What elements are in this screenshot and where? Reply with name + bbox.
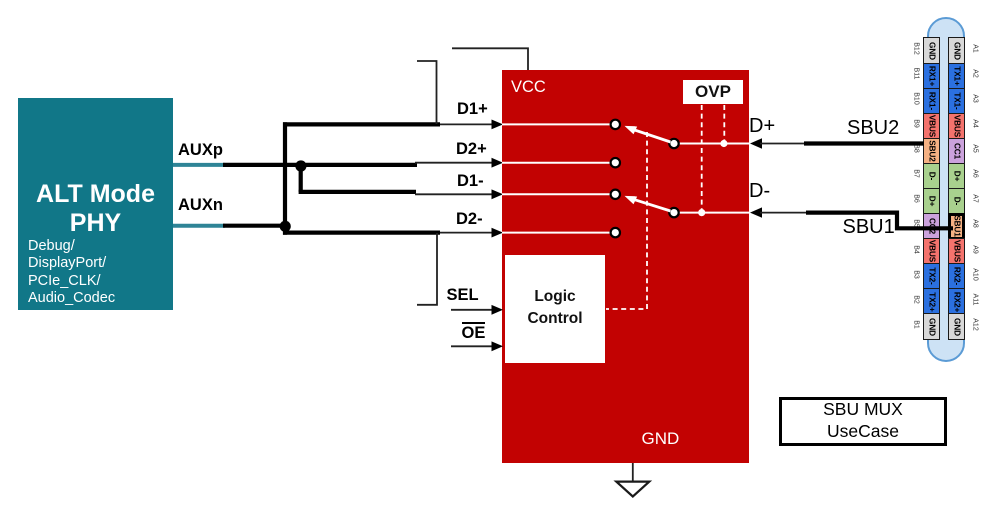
pin number B9 (913, 117, 920, 131)
wire D1- thin into mux (415, 193, 493, 195)
connector pin A10 RX2- (948, 263, 965, 290)
pin number B7 (913, 167, 920, 181)
connector pin B10 RX1- (923, 88, 940, 115)
dashed OVP sense line to D+ (723, 105, 725, 141)
switch throw node D2- (611, 228, 620, 237)
pin number A1 (972, 41, 979, 55)
connector pin A11 RX2+ (948, 288, 965, 315)
connector pin A6 D+ (948, 163, 965, 190)
connector pin A9 VBUS (948, 238, 965, 265)
pin number A8 (972, 217, 979, 231)
mux internal line D+ common (678, 143, 749, 145)
dashed control line from switch to Logic Control (606, 132, 647, 309)
pin number B4 (913, 242, 920, 256)
wire AUXp branch vertical (299, 165, 303, 192)
pin number A4 (972, 117, 979, 131)
pin number A6 (972, 167, 979, 181)
wire D1- feed (299, 190, 416, 194)
pin label SEL (447, 286, 479, 305)
connector pin B11 RX1+ (923, 63, 940, 90)
wire D2+ thin into mux (415, 162, 493, 164)
node label AUXp (178, 141, 223, 160)
pin label D- (749, 180, 770, 203)
pin number A9 (972, 242, 979, 256)
label ALT Mode PHY title (18, 180, 173, 238)
connector pin B7 D- (923, 163, 940, 190)
pin label D2+ (456, 140, 487, 159)
block OVP (683, 80, 743, 104)
pin label D+ (749, 115, 775, 138)
wire vertical bus AUXn to D1+/D2- (283, 122, 287, 234)
switch throw node D2+ (611, 158, 620, 167)
junction dot OVP on D- (698, 209, 705, 216)
pin number A10 (972, 267, 979, 281)
mux internal line D1- (502, 193, 611, 195)
pin number A12 (972, 317, 979, 331)
junction dot AUXp branch (295, 160, 306, 171)
wire D1+ thin into mux (440, 123, 493, 125)
switch common node D+ (669, 139, 678, 148)
connector pin A8 SBU1 (948, 213, 965, 240)
ground symbol (616, 482, 649, 497)
node label AUXn (178, 196, 223, 215)
wire SBU1 thick (806, 213, 953, 229)
connector pin A2 TX1+ (948, 63, 965, 90)
pin label D1- (457, 172, 484, 191)
mux internal line D2- (502, 232, 611, 234)
pin number B12 (913, 41, 920, 55)
connector pin B6 D+ (923, 188, 940, 215)
wire D2- thin into mux (440, 232, 493, 234)
connector pin A3 TX1- (948, 88, 965, 115)
pin number A7 (972, 192, 979, 206)
connector pin B8 SBU2 (923, 138, 940, 165)
connector pin B9 VBUS (923, 113, 940, 140)
pin arrow D1+ (492, 120, 504, 130)
wire stub bracket below D2- (417, 233, 437, 305)
switch lever arrow D- (625, 196, 638, 204)
switch common node D- (669, 208, 678, 217)
pin label GND (642, 429, 680, 449)
connector pin A12 GND (948, 313, 965, 340)
pin number B2 (913, 292, 920, 306)
wire SBU2 thick (804, 141, 924, 145)
wire AUXp teal stub (173, 163, 225, 167)
pin label D1+ (457, 100, 488, 119)
pin number B11 (913, 67, 920, 81)
switch throw node D1- (611, 190, 620, 199)
pin arrow OE (492, 341, 504, 351)
pin number B1 (913, 317, 920, 331)
connector pin A7 D- (948, 188, 965, 215)
wire SEL (451, 309, 493, 311)
mux IC body (red) (502, 70, 749, 463)
block Logic Control U1 (505, 255, 605, 363)
connector pin B5 CC2 (923, 213, 940, 240)
pin arrow D2+ (492, 158, 504, 168)
wire D+ thin (760, 143, 806, 145)
wire VCC feed (452, 48, 528, 70)
wire stub bracket above D1+ (417, 61, 437, 124)
wire D- thin (760, 212, 808, 214)
mux internal line D- common (678, 212, 749, 214)
pin arrow D1- (492, 189, 504, 199)
mux internal line D1+ (502, 123, 611, 125)
pin label D2- (456, 210, 483, 229)
connector pin A1 GND (948, 37, 965, 64)
pin number B5 (913, 217, 920, 231)
pin number A5 (972, 142, 979, 156)
connector pin B2 TX2+ (923, 288, 940, 315)
pin arrow D+ (from SBU2) (750, 138, 762, 148)
wire OE (451, 345, 493, 347)
pin number B8 (913, 142, 920, 156)
label ALT Mode PHY sublist (28, 238, 115, 307)
connector pin B12 GND (923, 37, 940, 64)
wire AUXn teal stub (173, 224, 225, 228)
junction dot OVP on D+ (720, 140, 727, 147)
pin label VCC (511, 78, 546, 97)
mux internal line D2+ (502, 162, 611, 164)
connector pin A4 VBUS (948, 113, 965, 140)
pin number B6 (913, 192, 920, 206)
wire AUXn to junction (223, 224, 287, 228)
switch lever D- to D1- (634, 200, 671, 212)
wire AUXp to D2+ (223, 163, 417, 167)
wire D1+ feed (283, 122, 440, 126)
block SBU MUX UseCase note (779, 397, 947, 446)
connector pin A5 CC1 (948, 138, 965, 165)
pin number B10 (913, 92, 920, 106)
net label SBU2 (847, 117, 899, 140)
switch lever D+ to D1+ (634, 130, 671, 142)
pin number B3 (913, 267, 920, 281)
connector pin B1 GND (923, 313, 940, 340)
pin number A11 (972, 292, 979, 306)
pin arrow D2- (492, 228, 504, 238)
pin label OE (active low) (462, 322, 486, 343)
junction dot AUXn branch (280, 221, 291, 232)
switch lever arrow D+ (625, 126, 638, 134)
ground stem (632, 463, 634, 482)
connector pin B4 VBUS (923, 238, 940, 265)
net label SBU1 (843, 216, 895, 239)
wire D2- feed (283, 231, 440, 235)
pin arrow SEL (492, 305, 504, 315)
pin number A3 (972, 92, 979, 106)
dashed OVP sense line to D- (701, 105, 703, 210)
pin arrow D- (from SBU1) (750, 207, 762, 217)
connector J1 USB-C receptacle shell (927, 17, 965, 362)
connector pin B3 TX2- (923, 263, 940, 290)
pin number A2 (972, 67, 979, 81)
block ALT Mode PHY (18, 98, 173, 310)
switch throw node D1+ (611, 120, 620, 129)
